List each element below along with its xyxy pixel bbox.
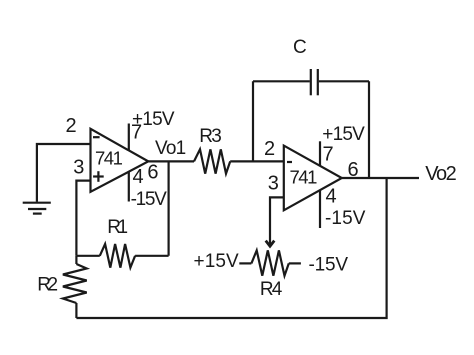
svg-text:Vo1: Vo1 [155,138,186,159]
wire U1 output to R3 [148,160,194,162]
svg-text:Vo2: Vo2 [425,163,456,185]
wire R4 to -15V [289,262,301,264]
svg-text:R4: R4 [260,279,283,300]
svg-text:-15V: -15V [325,208,366,229]
resistor R2 [37,256,86,318]
wire -15V supply U1 [128,172,130,202]
svg-text:3: 3 [73,157,84,179]
svg-text:R3: R3 [199,126,221,147]
wiper arrow [266,241,275,247]
svg-text:4: 4 [326,185,337,207]
resistor R1 [76,217,168,268]
svg-text:741: 741 [290,167,318,188]
ground [23,203,51,214]
resistor R3 [194,126,230,174]
svg-text:+15V: +15V [322,124,365,145]
svg-text:4: 4 [133,166,144,188]
wire cap right branch [368,81,370,178]
op-amp U1 [91,129,149,192]
wire Vo1 node down to R1 [168,161,170,255]
svg-text:-15V: -15V [131,189,168,210]
wire bottom feedback [76,178,386,318]
svg-text:R1: R1 [107,217,127,238]
svg-text:+15V: +15V [132,109,175,130]
wire pin3 input of U1 [76,181,90,256]
svg-text:2: 2 [264,138,275,160]
svg-text:3: 3 [268,173,279,195]
wire +15V supply U2 [319,141,321,165]
wire +15V to R4 [239,262,251,264]
wire U2 output [342,177,419,179]
wire +15V supply U1 [128,124,130,151]
svg-text:-15V: -15V [309,255,349,276]
svg-text:C: C [293,37,306,58]
svg-text:+15V: +15V [194,251,240,272]
capacitor C [253,37,369,95]
wire cap left branch [252,81,254,161]
wire -15V supply U2 [319,190,321,228]
wire pin2 input of U1 [37,144,90,202]
svg-text:2: 2 [66,115,77,137]
svg-text:6: 6 [147,162,158,184]
op-amp U2 [284,146,342,211]
svg-text:R2: R2 [37,275,57,296]
svg-text:741: 741 [95,148,123,169]
potentiometer R4 [251,250,288,300]
wire R3 to U2 pin2 [230,160,284,162]
wire pin3 of U2 to wiper [270,197,284,246]
svg-text:7: 7 [323,144,334,166]
